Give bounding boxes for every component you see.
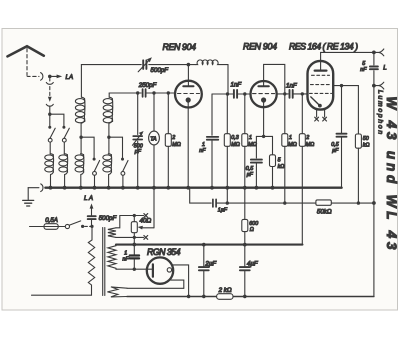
- capacitor C2uF: [203, 245, 205, 297]
- wire to band switches: [49, 106, 51, 114]
- wire link L3 to S3: [81, 137, 94, 158]
- svg-text:0,3: 0,3: [231, 135, 238, 141]
- node trimmer top: [136, 91, 139, 94]
- coil L6: [103, 155, 112, 160]
- wire feed S1: [49, 114, 51, 126]
- resistor R 0.3M: [226, 94, 228, 203]
- capacitor C1uF: [213, 199, 216, 207]
- wire antenna stem (dashed): [27, 49, 39, 77]
- node mains junction: [90, 225, 93, 228]
- capacitor C500pF variable: [143, 60, 146, 69]
- svg-text:2: 2: [171, 135, 175, 141]
- switch S3: [93, 158, 96, 161]
- node 40ohm top: [133, 214, 136, 217]
- svg-text:MΩ: MΩ: [248, 142, 256, 148]
- plug jack bottom: [46, 104, 53, 106]
- node switch feed: [48, 113, 51, 116]
- svg-text:50: 50: [363, 136, 369, 142]
- svg-text:5: 5: [362, 61, 365, 67]
- winding W2 HT: [108, 245, 116, 270]
- svg-text:MΩ: MΩ: [288, 142, 296, 148]
- tube U1 REN904: [175, 81, 202, 108]
- node HT line2: [132, 243, 136, 247]
- svg-text:kΩ: kΩ: [278, 164, 285, 170]
- wire plug link (dashed with arrow): [49, 79, 51, 98]
- svg-text:50kΩ: 50kΩ: [317, 208, 332, 215]
- node rail mid: [372, 84, 376, 88]
- main ground bus: [45, 186, 341, 188]
- wire filament pin1: [171, 265, 188, 297]
- coil L3 tall: [80, 65, 82, 98]
- svg-text:nF: nF: [199, 148, 206, 154]
- bus junction dots: [49, 186, 275, 190]
- coil L1: [45, 155, 54, 160]
- wire U3 right side: [333, 86, 358, 134]
- transformer T1 primary: [32, 226, 95, 295]
- svg-text:1: 1: [249, 135, 252, 141]
- wire choke down: [227, 65, 229, 94]
- jack TA: [153, 93, 155, 188]
- capacitor C1nF heater: [130, 256, 139, 259]
- speaker terminal 2: [374, 82, 384, 89]
- resistor R 2k: [217, 294, 233, 300]
- plug jack lower: [46, 82, 53, 84]
- fuse 0.5A: [44, 224, 58, 230]
- svg-text:nF: nF: [123, 256, 130, 262]
- coil L2: [59, 155, 68, 160]
- capacitor C 0.5uF output: [341, 86, 343, 188]
- capacitor C1nF grid: [207, 137, 219, 140]
- svg-text:0,5A: 0,5A: [45, 217, 58, 224]
- HT rail right: [373, 52, 375, 296]
- transformer core: [103, 228, 105, 296]
- node return 1M: [283, 201, 286, 204]
- node grid top: [187, 63, 191, 67]
- svg-text:MΩ: MΩ: [231, 142, 239, 148]
- svg-text:1: 1: [289, 135, 292, 141]
- switch S1: [48, 126, 51, 129]
- winding W1 heater: [108, 228, 116, 238]
- svg-text:1µF: 1µF: [218, 208, 228, 214]
- svg-text:250pF: 250pF: [138, 82, 158, 89]
- svg-text:TA: TA: [150, 136, 157, 142]
- bottom HT- bus: [127, 296, 374, 298]
- resistor R 2M grid3: [301, 94, 303, 245]
- svg-text:kΩ: kΩ: [363, 142, 370, 148]
- mains lead 1: [30, 226, 45, 228]
- svg-text:Ω: Ω: [250, 227, 254, 233]
- switch S4: [121, 158, 124, 161]
- node coupling 2: [283, 92, 286, 95]
- LA arrow: [52, 75, 58, 77]
- node L4 bottom: [107, 136, 110, 139]
- svg-text:µF: µF: [332, 148, 339, 154]
- svg-text:1: 1: [124, 250, 127, 256]
- switch mains: [65, 224, 69, 228]
- resistor R 600ohm: [244, 188, 246, 245]
- wire W1 bottom lead: [116, 236, 134, 238]
- tube U4 RGN354: [147, 257, 173, 283]
- svg-text:RES 164 ( RE 134 ): RES 164 ( RE 134 ): [289, 42, 358, 52]
- node antenna junction: [48, 75, 52, 79]
- resistor R 1M grid2: [284, 146, 286, 203]
- wire cathode return line: [188, 188, 374, 203]
- resistor R 50k vertical: [355, 134, 361, 148]
- svg-text:2 kΩ: 2 kΩ: [218, 287, 232, 294]
- node line2 600ohm: [243, 243, 247, 247]
- svg-text:LA: LA: [66, 74, 74, 81]
- svg-text:1nF: 1nF: [231, 81, 243, 88]
- node filament bus: [187, 295, 191, 299]
- resistor R 1M: [244, 94, 246, 188]
- wire L2 to bus: [64, 175, 66, 188]
- bus plug connector: [41, 184, 43, 192]
- node line2 2uF: [202, 243, 206, 247]
- node grid3: [301, 92, 304, 95]
- node C1nF right: [243, 92, 246, 95]
- node 2uF bus2: [202, 295, 206, 299]
- svg-text:REN 904: REN 904: [163, 42, 197, 52]
- wire S1 to coil L1: [49, 142, 51, 154]
- antenna plug connector: [41, 73, 43, 81]
- wire L3 to coil L5: [80, 137, 82, 154]
- svg-text:MΩ: MΩ: [172, 142, 180, 148]
- speaker terminal 1: [374, 49, 384, 56]
- svg-text:5: 5: [278, 158, 281, 164]
- svg-text:L: L: [383, 64, 387, 71]
- node 40ohm bottom: [133, 236, 136, 239]
- svg-text:2: 2: [305, 135, 309, 141]
- svg-text:MΩ: MΩ: [306, 142, 314, 148]
- wire link L4 to S4: [109, 137, 123, 158]
- U3 filament pins x marks: [316, 109, 318, 117]
- winding W3 rectifier filament: [107, 287, 127, 297]
- wire W3 top lead: [127, 287, 184, 289]
- HT line2: [116, 244, 302, 246]
- wire U2 grid out: [277, 93, 308, 95]
- antenna: [8, 46, 44, 56]
- wire grid row: [109, 92, 175, 94]
- capacitor trimmer 500pF: [133, 136, 142, 139]
- wiper arrow: [141, 227, 154, 229]
- capacitor C1nF coupling: [234, 90, 237, 98]
- wire L4 to coil L6: [108, 137, 110, 154]
- node return rail: [372, 201, 376, 205]
- svg-text:L A: L A: [84, 195, 93, 202]
- switch S2: [62, 126, 65, 129]
- wire TA line below bus: [153, 188, 155, 228]
- wire filament pin2: [171, 280, 184, 288]
- svg-text:40Ω: 40Ω: [140, 218, 152, 225]
- ground: [27, 188, 29, 200]
- svg-text:500pF: 500pF: [151, 67, 170, 74]
- node anode lead: [133, 268, 136, 271]
- capacitor C250pF: [143, 89, 146, 97]
- node TA top: [152, 91, 155, 94]
- svg-text:pF: pF: [134, 149, 142, 155]
- resistor R 40ohm hum pot: [133, 216, 135, 238]
- wire trimmer: [137, 93, 139, 188]
- wire W2 bottom anode lead: [116, 268, 152, 270]
- node 4uF bus2: [243, 295, 247, 299]
- choke coil: [195, 60, 228, 65]
- node rail top: [372, 51, 376, 55]
- wire top grid line: [81, 64, 195, 66]
- capacitor C4uF: [244, 245, 246, 297]
- svg-text:µF: µF: [247, 172, 254, 178]
- tube U2 REN904: [251, 81, 277, 107]
- node L3 bottom: [79, 136, 82, 139]
- resistor R 50k horizontal: [316, 200, 331, 205]
- svg-text:4µF: 4µF: [247, 260, 259, 267]
- capacitor C 0.5uF cathode: [255, 136, 257, 187]
- capacitor C5nF: [370, 67, 378, 70]
- wire heater mid down: [133, 237, 135, 269]
- node R 2M top: [167, 91, 170, 94]
- svg-text:RGN 354: RGN 354: [147, 247, 181, 257]
- node 0.5uF out top: [340, 84, 343, 87]
- wire U3 anode to terminal: [321, 51, 374, 53]
- svg-text:Lumophon: Lumophon: [377, 90, 384, 135]
- capacitor C500pF mains + LA arrow: [91, 220, 93, 227]
- coil L4 tall: [108, 93, 110, 97]
- x stub top: [134, 215, 143, 217]
- resistor R 5k cathode: [272, 136, 274, 187]
- wire ground to bus connector: [28, 187, 39, 189]
- node return 0.3M: [226, 201, 229, 204]
- svg-text:REN 904: REN 904: [243, 42, 277, 52]
- wire U2 anode top: [264, 64, 285, 133]
- wire link to switch S2: [50, 114, 64, 126]
- svg-text:nF: nF: [360, 67, 367, 73]
- resistor R 2M: [167, 93, 169, 188]
- x stub bottom: [134, 236, 143, 238]
- wire W1 top lead: [116, 216, 134, 228]
- tube U3 RES164: [308, 61, 334, 110]
- wire U2 cathode: [263, 103, 265, 137]
- wire anode link: [212, 93, 250, 95]
- wire S2 to coil L2: [63, 142, 65, 154]
- svg-text:2µF: 2µF: [204, 260, 217, 267]
- coil L5: [75, 155, 84, 160]
- capacitor C1nF coupling2: [290, 90, 293, 98]
- svg-text:1nF: 1nF: [286, 82, 298, 89]
- svg-text:500pF: 500pF: [99, 215, 118, 222]
- node anode: [226, 92, 229, 95]
- wire L1 to bus: [50, 175, 52, 188]
- svg-text:600: 600: [249, 221, 258, 227]
- node return 50k: [357, 201, 360, 204]
